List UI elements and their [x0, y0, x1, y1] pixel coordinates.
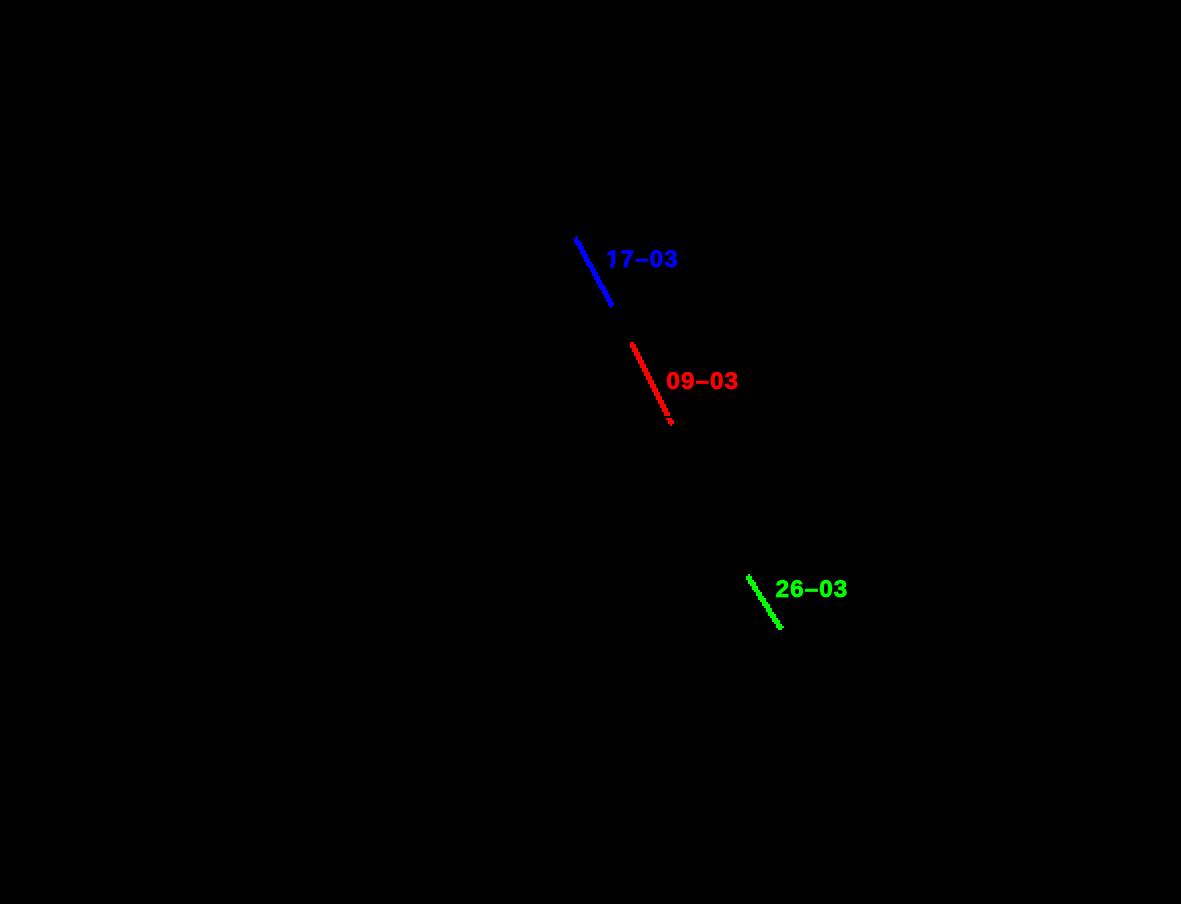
wire blue segment 17-03 [574, 236, 614, 308]
svg-text:17–03: 17–03 [606, 246, 679, 273]
svg-text:09–03: 09–03 [666, 368, 739, 395]
svg-text:26–03: 26–03 [776, 576, 849, 603]
node label mask: remove foot serif of digit 1 [605, 264, 610, 269]
wire green segment 26-03 [746, 574, 784, 630]
wire red segment 09-03 [630, 342, 674, 426]
